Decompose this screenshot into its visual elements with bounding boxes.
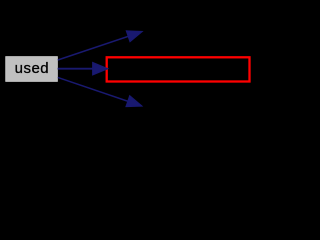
svg-text:used: used [15, 60, 50, 77]
node highlighted (red) [107, 57, 250, 81]
wire edge-mid [58, 62, 108, 75]
wire edge-top [58, 31, 143, 60]
node used [6, 57, 58, 82]
wire edge-bottom [58, 77, 142, 106]
